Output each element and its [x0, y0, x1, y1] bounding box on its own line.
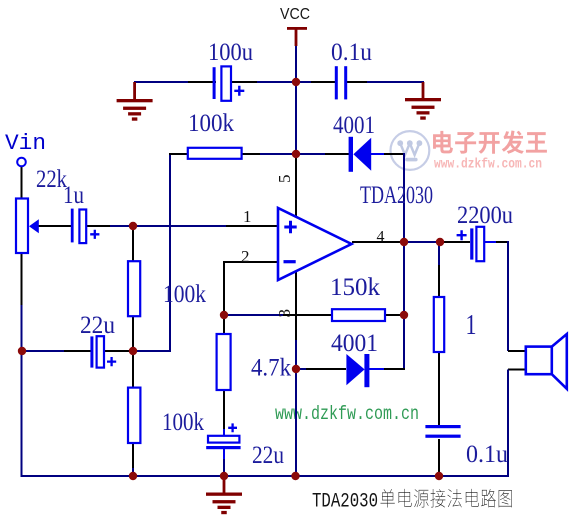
- wire pin5 node to D1: [296, 153, 327, 155]
- capacitor C2 100u: [213, 67, 216, 99]
- wire pin 3 down: [295, 271, 297, 342]
- wire D2 to output corner: [369, 368, 386, 370]
- wire pin 4 output: [352, 241, 404, 243]
- svg-text:0.1u: 0.1u: [331, 39, 372, 66]
- resistor R6 1 ohm: [434, 297, 444, 352]
- junction dot rail node R3: [129, 472, 137, 480]
- op-amp plus input mark: [284, 221, 296, 233]
- junction dot bias node A: [129, 347, 137, 355]
- svg-text:100k: 100k: [188, 110, 234, 137]
- svg-text:VCC: VCC: [280, 6, 310, 23]
- svg-text:2: 2: [241, 247, 250, 266]
- wire pin2 node to 150k: [224, 314, 285, 316]
- junction dot rail node pin3: [291, 472, 299, 480]
- potentiometer RP 22k body: [16, 199, 28, 254]
- watermark text dianzikaifawang: [433, 131, 453, 154]
- junction dot zobel tap node: [436, 238, 444, 246]
- svg-text:TDA2030: TDA2030: [312, 491, 378, 514]
- wire pin2 node down to 4.7k: [223, 315, 225, 334]
- junction dot output pin4 node: [400, 238, 408, 246]
- junction dot pin3 diode node: [292, 365, 300, 373]
- resistor R1 100k feedback: [188, 148, 242, 159]
- diode D1 4001: [349, 137, 353, 172]
- wire speaker top stub: [508, 350, 526, 352]
- junction dot left rail 22u node: [18, 347, 26, 355]
- wire 1u cap to pin1 junction: [86, 225, 112, 227]
- diode D2 4001: [346, 354, 364, 385]
- svg-text:5: 5: [275, 175, 294, 184]
- wire 2200u cap to speaker corner: [484, 241, 498, 243]
- capacitor C6 2200u: [470, 228, 473, 259]
- junction dot rail node zobel: [435, 472, 443, 480]
- watermark logo W circle: [391, 131, 430, 170]
- capacitor C4 22u: [90, 336, 93, 367]
- wire pot bottom to left rail: [21, 253, 23, 307]
- wire node A down to R3: [132, 351, 134, 388]
- svg-text:1: 1: [243, 207, 252, 226]
- wire VCC stem to junction: [295, 44, 297, 82]
- capacitor C7 0.1u bottom: [425, 425, 460, 428]
- svg-text:www.dzkfw.com.cn: www.dzkfw.com.cn: [434, 158, 542, 173]
- wire pin 2 to corner: [224, 261, 278, 263]
- input terminal Vin: [17, 158, 26, 167]
- junction dot rail node 22u: [220, 472, 228, 480]
- svg-text:22u: 22u: [252, 442, 284, 469]
- wire pot wiper to 1u cap: [38, 225, 71, 227]
- svg-text:100u: 100u: [208, 39, 253, 66]
- ground G2 top-right: [422, 82, 425, 98]
- wire 22u cap to node A: [104, 350, 133, 352]
- wire 4.7k to 22u cap: [223, 390, 225, 431]
- resistor R2 100k bias upper: [128, 261, 140, 316]
- svg-text:150k: 150k: [330, 274, 381, 301]
- op-amp U1 TDA2030 triangle: [278, 208, 352, 280]
- svg-text:100k: 100k: [162, 409, 204, 436]
- svg-text:3: 3: [275, 309, 294, 318]
- wire output vertical mid: [403, 242, 405, 315]
- svg-text:22u: 22u: [80, 312, 115, 339]
- wire pin1 junction down to R2: [132, 226, 134, 261]
- wire 150k to output vertical: [385, 314, 404, 316]
- speaker LS1: [526, 347, 552, 375]
- wire R3 to ground rail: [132, 443, 134, 470]
- junction dot pin1 input node: [129, 222, 137, 230]
- svg-text:Vin: Vin: [5, 131, 46, 156]
- wire 0.1u cap to ground rail: [438, 439, 440, 477]
- svg-text:100k: 100k: [163, 281, 206, 308]
- wire R2 to node A: [132, 316, 134, 351]
- wire R1 left to vertical: [169, 153, 171, 352]
- svg-text:1: 1: [466, 310, 477, 341]
- wire pin 5: [295, 154, 297, 218]
- wire ground rail: [21, 475, 509, 477]
- wire pin3 node to D2: [296, 368, 308, 370]
- wire pin1 junction to op-amp: [133, 225, 228, 227]
- junction dot VCC junction: [292, 78, 300, 86]
- wire node A horizontal: [133, 350, 171, 352]
- wire R1 right to pin5 node: [241, 153, 262, 155]
- resistor R4 150k: [332, 309, 385, 321]
- capacitor C1 1u: [71, 209, 74, 243]
- wire speaker bottom stub: [508, 369, 526, 371]
- junction dot pin5/VCC node: [292, 150, 300, 158]
- junction dot 150k output node: [400, 311, 408, 319]
- wire speaker to ground rail: [507, 370, 509, 478]
- svg-text:4001: 4001: [331, 330, 378, 357]
- wire to 2200u cap: [440, 241, 446, 243]
- wire Vin terminal to pot: [21, 166, 23, 199]
- svg-text:1u: 1u: [63, 182, 84, 209]
- svg-text:4001: 4001: [333, 112, 375, 139]
- wire VCC rail left: [134, 81, 213, 83]
- svg-text:4.7k: 4.7k: [251, 355, 291, 382]
- wire output to 1 ohm resistor: [438, 242, 440, 267]
- wire 22u cap to ground rail: [223, 449, 225, 461]
- junction dot pin2 feedback node: [220, 311, 228, 319]
- resistor R3 100k bias lower: [128, 388, 140, 443]
- svg-text:0.1u: 0.1u: [466, 441, 508, 468]
- op-amp minus input mark: [284, 260, 296, 263]
- wire VCC rail right: [296, 81, 313, 83]
- potentiometer wiper arrow: [29, 219, 39, 233]
- resistor R5 4.7k: [217, 334, 231, 390]
- svg-text:4: 4: [377, 229, 385, 246]
- svg-text:2200u: 2200u: [457, 202, 513, 229]
- wire VCC junction down to pin5 node: [295, 82, 297, 154]
- ground G1 top-left: [133, 82, 136, 99]
- capacitor C5 22u bottom: [208, 436, 239, 443]
- wire D1 to output vertical: [371, 153, 386, 155]
- capacitor C3 0.1u: [335, 66, 338, 99]
- wire output junctions: [404, 241, 440, 243]
- VCC power symbol: [287, 27, 307, 30]
- svg-text:TDA2030: TDA2030: [360, 182, 433, 209]
- wire 1 ohm to 0.1u cap: [438, 352, 440, 425]
- wire left rail to 22u cap: [22, 350, 66, 352]
- ground G3 bottom: [223, 477, 226, 493]
